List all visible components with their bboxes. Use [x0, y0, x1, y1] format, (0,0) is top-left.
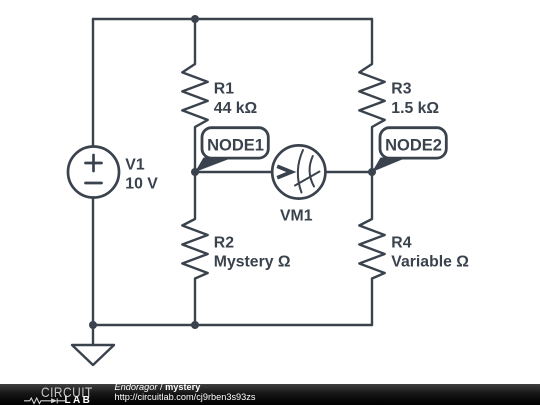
wire NODE1 to VM1 — [195, 171, 272, 173]
V1 minus — [86, 182, 102, 185]
footer text — [115, 383, 256, 403]
resistor R2 — [182, 172, 207, 325]
logo squiggle — [24, 397, 68, 405]
svg-text:44 kΩ: 44 kΩ — [214, 100, 258, 117]
node junction top — [191, 15, 199, 23]
resistor R1 — [182, 19, 207, 172]
V1 plus — [86, 155, 102, 171]
voltmeter VM1 — [272, 145, 325, 198]
svg-text:R4: R4 — [391, 234, 411, 251]
svg-text:VM1: VM1 — [280, 208, 313, 225]
svg-text:10 V: 10 V — [125, 175, 158, 192]
VM1 needle line — [295, 172, 320, 186]
node NODE2 junction — [368, 168, 376, 176]
node NODE1 junction — [191, 168, 199, 176]
ground — [72, 345, 114, 365]
svg-text:V1: V1 — [125, 157, 145, 174]
svg-text:NODE1: NODE1 — [207, 137, 264, 155]
ground wire — [92, 325, 94, 345]
svg-text:Variable Ω: Variable Ω — [391, 253, 469, 270]
resistor R3 — [359, 19, 384, 172]
wire left branch upper — [92, 19, 94, 147]
logo CIRCUIT — [41, 385, 93, 399]
logo LAB — [65, 396, 93, 405]
svg-text:R2: R2 — [214, 234, 234, 251]
NODE2 callout box — [380, 128, 446, 158]
wire VM1 to NODE2 — [325, 171, 372, 173]
footer bar — [0, 384, 540, 405]
resistor R4 — [359, 172, 384, 325]
NODE1 callout tail — [195, 158, 233, 173]
wire bottom rail — [93, 324, 372, 326]
NODE2 callout tail — [372, 158, 407, 173]
voltage source V1 — [68, 147, 119, 198]
wire top rail — [93, 18, 372, 20]
NODE1 callout box — [202, 128, 268, 158]
svg-text:R3: R3 — [391, 81, 411, 98]
svg-text:Mystery Ω: Mystery Ω — [214, 253, 291, 270]
svg-text:R1: R1 — [214, 81, 234, 98]
VM1 arc 2 — [310, 156, 314, 187]
VM1 arc 1 — [298, 150, 303, 193]
node ground junction — [89, 321, 97, 329]
VM1 pointer — [277, 166, 291, 177]
svg-text:1.5 kΩ: 1.5 kΩ — [391, 100, 439, 117]
svg-text:NODE2: NODE2 — [385, 137, 442, 155]
wire left branch lower — [92, 198, 94, 326]
node bottom junction — [191, 321, 199, 329]
